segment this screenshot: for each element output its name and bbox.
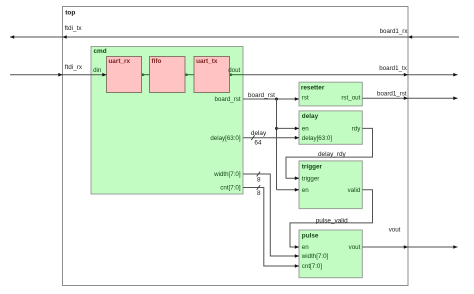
- port cnt[7:0] (pulse): [302, 263, 323, 270]
- junction delay en: [275, 127, 278, 130]
- svg-text:delay_rdy: delay_rdy: [318, 151, 347, 158]
- wire delay_rdy: [286, 128, 373, 178]
- net label vout: [389, 227, 401, 234]
- module fifo: [150, 57, 186, 93]
- svg-text:delay: delay: [302, 113, 319, 120]
- net label board1_rst: [377, 90, 407, 97]
- svg-text:vout: vout: [389, 227, 401, 234]
- label cmd: [94, 48, 107, 55]
- svg-text:8: 8: [257, 190, 261, 197]
- module uart_tx: [194, 57, 230, 93]
- svg-text:pulse_valid: pulse_valid: [316, 217, 348, 224]
- module resetter: [299, 82, 362, 106]
- label resetter: [301, 85, 325, 92]
- port dout: [228, 67, 240, 74]
- svg-text:uart_tx: uart_tx: [196, 58, 218, 65]
- port din: [93, 67, 102, 74]
- port vout: [349, 244, 361, 251]
- arrow ftdi_rx into uart_rx: [102, 73, 106, 77]
- svg-text:width[7:0]: width[7:0]: [301, 253, 329, 260]
- svg-text:cmd: cmd: [94, 48, 107, 55]
- wire board_rst branch down: [276, 99, 278, 190]
- svg-text:cnt[7:0]: cnt[7:0]: [302, 263, 323, 270]
- bus width 8 (cnt): [257, 190, 261, 197]
- port width[7:0] (cmd): [213, 171, 241, 178]
- port en (trigger): [302, 187, 309, 194]
- svg-text:din: din: [93, 67, 102, 74]
- svg-text:top: top: [65, 10, 75, 17]
- arrow into delay en: [295, 127, 299, 131]
- arrow board1_rst at border: [404, 96, 408, 100]
- net label pulse_valid: [316, 217, 348, 224]
- svg-text:ftdi_tx: ftdi_tx: [65, 25, 83, 32]
- arrow ftdi_tx end: [10, 35, 14, 39]
- port en (pulse): [302, 244, 309, 251]
- svg-text:en: en: [302, 125, 309, 132]
- svg-text:trigger: trigger: [302, 175, 320, 182]
- wire cnt: [243, 188, 299, 267]
- arrow board1_rst end: [453, 96, 457, 100]
- svg-text:8: 8: [257, 177, 261, 184]
- svg-text:en: en: [302, 244, 309, 251]
- net label delay_rdy: [318, 151, 347, 158]
- module top (outer boundary): [63, 7, 409, 286]
- svg-text:board_rst: board_rst: [214, 96, 240, 103]
- arrow vout at border: [404, 245, 408, 249]
- svg-text:64: 64: [254, 140, 262, 147]
- module trigger: [299, 161, 362, 209]
- wire vout: [362, 246, 457, 248]
- svg-text:board1_rst: board1_rst: [377, 90, 407, 97]
- wire to trigger en: [277, 189, 300, 191]
- arrow ftdi_tx at border: [63, 35, 67, 39]
- wire board_rst: [243, 98, 299, 100]
- svg-text:uart_rx: uart_rx: [108, 58, 130, 65]
- label uart_rx: [108, 58, 130, 65]
- wire pulse_valid: [290, 190, 373, 247]
- wire fifo to uart_tx: [185, 73, 194, 76]
- wire ftdi_rx: [10, 74, 107, 76]
- wire ftdi_tx / board1_rx: [10, 36, 459, 38]
- svg-text:rst: rst: [302, 95, 309, 102]
- port delay[63:0] (delay): [302, 135, 333, 142]
- arrow into pulse cnt: [295, 264, 299, 268]
- port width[7:0] (pulse): [301, 253, 329, 260]
- net label delay: [251, 130, 267, 137]
- module uart_rx: [107, 57, 142, 93]
- bus width 64: [254, 140, 262, 147]
- bus slash delay: [251, 135, 254, 140]
- arrow into delay bus: [295, 136, 299, 140]
- bus width 8 (width): [257, 177, 261, 184]
- svg-text:en: en: [302, 187, 309, 194]
- svg-text:delay[63:0]: delay[63:0]: [210, 135, 241, 142]
- bus slash cnt: [257, 185, 260, 190]
- arrow ftdi_rx at border: [58, 73, 62, 77]
- label top: [65, 10, 75, 17]
- port rst_out: [341, 95, 360, 102]
- label trigger: [302, 163, 323, 170]
- svg-text:valid: valid: [348, 187, 361, 194]
- svg-text:cnt[7:0]: cnt[7:0]: [220, 185, 241, 192]
- wire board1_tx: [243, 74, 458, 76]
- arrow board1_rx at border: [408, 35, 412, 39]
- bus slash width: [257, 172, 260, 177]
- svg-text:ftdi_rx: ftdi_rx: [65, 64, 83, 71]
- svg-text:width[7:0]: width[7:0]: [213, 171, 241, 178]
- wire width: [243, 174, 299, 256]
- net label ftdi_rx: [65, 64, 83, 71]
- junction board_rst: [275, 98, 278, 101]
- net label ftdi_tx: [65, 25, 83, 32]
- module delay: [299, 111, 362, 144]
- svg-text:rst_out: rst_out: [341, 95, 360, 102]
- label pulse: [302, 232, 319, 239]
- net label board1_tx: [379, 65, 407, 72]
- svg-text:pulse: pulse: [302, 232, 319, 239]
- label fifo: [152, 58, 162, 65]
- net label board1_rx: [380, 28, 409, 35]
- arrow into pulse en: [295, 245, 299, 249]
- port trigger: [302, 175, 320, 182]
- wire uart_rx to fifo: [142, 73, 150, 76]
- wire board1_rst: [362, 97, 457, 99]
- module cmd: [91, 47, 243, 195]
- arrow board1_tx at border: [404, 73, 408, 77]
- wire to delay en: [277, 127, 300, 129]
- svg-text:delay[63:0]: delay[63:0]: [302, 135, 333, 142]
- arrow into trigger en: [295, 188, 299, 192]
- svg-text:board_rst: board_rst: [248, 92, 275, 99]
- port valid: [348, 187, 361, 194]
- svg-text:board1_tx: board1_tx: [379, 65, 407, 72]
- label delay: [302, 113, 319, 120]
- wire uart_tx to dout: [230, 73, 244, 76]
- svg-text:dout: dout: [228, 67, 240, 74]
- svg-text:vout: vout: [349, 244, 361, 251]
- port rdy: [352, 125, 362, 132]
- svg-text:fifo: fifo: [152, 58, 162, 65]
- port delay[63:0] (cmd): [210, 135, 241, 142]
- arrow into pulse width: [295, 254, 299, 258]
- svg-text:delay: delay: [251, 130, 267, 137]
- port board_rst (cmd): [214, 96, 240, 103]
- wire delay bus: [243, 137, 299, 139]
- port rst: [302, 95, 309, 102]
- net label board_rst: [248, 92, 275, 99]
- svg-text:board1_rx: board1_rx: [380, 28, 409, 35]
- arrow vout end: [453, 245, 457, 249]
- svg-text:trigger: trigger: [302, 163, 323, 170]
- module pulse: [299, 230, 362, 278]
- port cnt[7:0] (cmd): [220, 185, 241, 192]
- arrow board1_tx end: [453, 73, 457, 77]
- label uart_tx: [196, 58, 218, 65]
- svg-text:resetter: resetter: [301, 85, 325, 92]
- arrow into rst: [295, 97, 299, 101]
- arrow into trigger: [295, 176, 299, 180]
- port en (delay): [302, 125, 309, 132]
- svg-text:rdy: rdy: [352, 125, 362, 132]
